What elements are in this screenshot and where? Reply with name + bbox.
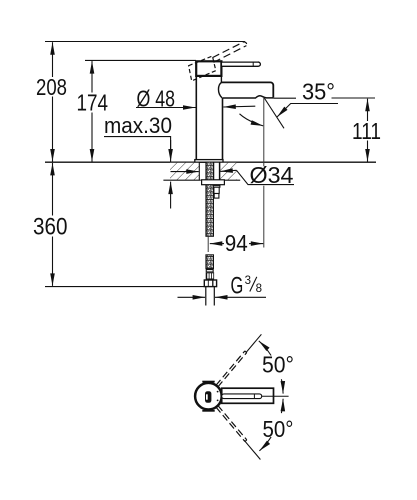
connection nut xyxy=(204,280,216,287)
faucet head (cartridge housing) xyxy=(196,61,221,76)
hose ferrule xyxy=(206,272,214,280)
dimension 208 line xyxy=(52,42,54,161)
dimension 50 deg upper arc xyxy=(259,341,283,394)
dimension Ø34 arrows xyxy=(171,171,199,173)
braided supply hose upper xyxy=(206,162,214,236)
174 top extension line xyxy=(85,59,196,61)
top view body circle xyxy=(195,383,222,410)
top view spout inner tube xyxy=(222,394,262,399)
dimension 35 deg leader xyxy=(277,104,338,118)
top view screw dots xyxy=(217,391,219,393)
360 bottom extension line xyxy=(45,286,204,288)
svg-text:Ø34: Ø34 xyxy=(250,162,294,188)
G3/8 threaded tube xyxy=(206,287,215,306)
water stream 35 deg line xyxy=(264,98,284,128)
head raised position (dashed) xyxy=(189,56,216,81)
spout bottom extension toward 111 xyxy=(273,97,296,99)
aerator vertical extension line xyxy=(263,98,265,166)
dimension 50 deg lower arc xyxy=(259,399,283,451)
svg-text:50°: 50° xyxy=(262,352,294,378)
swivel range lower (dashed) xyxy=(216,406,247,442)
lever handle (horizontal) xyxy=(221,62,260,66)
hose break centerline xyxy=(207,236,209,252)
faucet body right edge lower xyxy=(222,98,224,160)
top view spout tick xyxy=(253,394,255,399)
faucet body left edge xyxy=(195,76,197,160)
thread label G 3/8 xyxy=(231,273,263,300)
dimension 111 line xyxy=(367,99,369,162)
svg-text:111: 111 xyxy=(352,118,381,144)
countertop cross-section right (hatched) xyxy=(220,162,240,180)
dimension max.30 leader xyxy=(104,137,171,162)
svg-text:360: 360 xyxy=(33,213,68,240)
swivel bar lower end cap xyxy=(245,440,247,442)
base flange xyxy=(195,160,223,163)
faucet body right edge upper xyxy=(220,76,222,83)
svg-text:174: 174 xyxy=(77,90,109,116)
braided supply hose lower xyxy=(206,255,214,269)
svg-text:35°: 35° xyxy=(302,79,335,105)
svg-text:8: 8 xyxy=(256,283,262,295)
spout-body fillet curve xyxy=(218,83,222,98)
countertop cross-section left (hatched) xyxy=(163,162,200,180)
spout top edge and end face xyxy=(221,82,273,97)
top view lower tick xyxy=(202,410,214,412)
dimension Ø34 leader and text xyxy=(237,170,295,184)
top view upper tick xyxy=(202,381,214,383)
dimension 174 line xyxy=(91,61,93,161)
swivel range lower extension xyxy=(244,440,260,459)
hose crimp sleeve xyxy=(206,269,214,273)
svg-text:G: G xyxy=(231,273,244,300)
lever raised position (dashed) xyxy=(213,42,247,63)
mounting washer and nut xyxy=(202,180,225,185)
top view spout outline xyxy=(222,388,274,403)
rigid mounting pipe xyxy=(213,162,220,198)
svg-text:208: 208 xyxy=(36,74,67,100)
dimension max.30 bottom arrow xyxy=(170,182,172,209)
dimension G3/8 arrows xyxy=(178,296,206,298)
svg-text:3: 3 xyxy=(245,275,251,287)
dimension 94 line xyxy=(210,243,263,245)
dimension Ø48 right arrow xyxy=(223,105,255,108)
svg-text:max.30: max.30 xyxy=(104,113,172,138)
top view centerline xyxy=(262,395,289,397)
dimension Ø48 left arrow xyxy=(136,107,196,109)
top reference extension line xyxy=(45,41,245,43)
swivel range upper extension xyxy=(246,334,262,353)
flow arc arrow xyxy=(240,114,264,126)
swivel bar upper end cap xyxy=(245,351,247,353)
svg-text:94: 94 xyxy=(225,230,248,256)
countertop line xyxy=(45,161,376,163)
spout bottom edge with aerator wave xyxy=(223,96,274,98)
top view lever knob xyxy=(205,391,211,403)
dimension 360 line xyxy=(52,163,54,286)
svg-text:50°: 50° xyxy=(263,416,294,442)
swivel range upper (dashed) xyxy=(216,351,247,387)
